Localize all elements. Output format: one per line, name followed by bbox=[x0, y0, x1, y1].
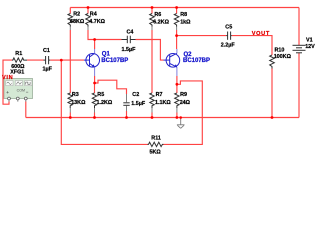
svg-text:+: + bbox=[6, 90, 9, 95]
svg-text:R1: R1 bbox=[15, 51, 22, 57]
junction rail R7 bbox=[151, 116, 154, 119]
capacitor C5 bbox=[221, 24, 236, 48]
svg-text:R11: R11 bbox=[151, 136, 161, 142]
svg-text:68KΩ: 68KΩ bbox=[70, 19, 85, 25]
svg-text:C5: C5 bbox=[225, 24, 232, 30]
svg-text:12V: 12V bbox=[305, 44, 315, 50]
svg-text:R10: R10 bbox=[275, 47, 285, 53]
svg-text:6.2KΩ: 6.2KΩ bbox=[153, 19, 169, 25]
wire R9 top lead bbox=[176, 84, 178, 93]
junction rail C2 bbox=[125, 116, 128, 119]
wire Q1 emitter jog to C2 bbox=[95, 80, 127, 94]
resistor R8 bbox=[174, 8, 191, 27]
svg-text:R7: R7 bbox=[156, 92, 163, 98]
svg-text:BC107BP: BC107BP bbox=[183, 58, 210, 64]
wire R6 bottom through cross to R7 top bbox=[151, 27, 153, 31]
wire Q2 emitter lead bbox=[176, 76, 178, 84]
wire base node to Q1 base bbox=[61, 59, 84, 61]
wire R2 bottom to base node bbox=[69, 27, 71, 31]
transistor Q1 bbox=[84, 49, 128, 76]
wire R8 bottom to Q2 collector node bbox=[176, 27, 178, 31]
resistor R7 bbox=[150, 92, 172, 108]
svg-text:Q2: Q2 bbox=[184, 52, 193, 58]
junction rail R3 bbox=[69, 116, 72, 119]
resistor R1 bbox=[11, 51, 27, 70]
wire R3 bottom to rail bbox=[69, 108, 71, 113]
junction rail ground bbox=[179, 116, 182, 119]
svg-text:V1: V1 bbox=[306, 38, 313, 44]
wire R11 right to Q2 emitter jog bbox=[164, 81, 203, 144]
wire R1 to C1 bbox=[27, 59, 44, 61]
svg-text:1.5µF: 1.5µF bbox=[131, 101, 146, 107]
wire XFG1 minus terminal drop bbox=[25, 102, 27, 118]
junction top rail R8 bbox=[175, 6, 178, 9]
wire collector node to C4 bbox=[95, 39, 122, 41]
svg-text:R2: R2 bbox=[73, 11, 80, 17]
capacitor C1 bbox=[43, 48, 53, 72]
svg-text:C4: C4 bbox=[127, 30, 134, 36]
svg-text:−: − bbox=[26, 90, 29, 95]
resistor R10 bbox=[270, 47, 292, 68]
junction Q2 collector node bbox=[175, 34, 178, 37]
junction top rail R6 bbox=[151, 6, 154, 9]
svg-text:C1: C1 bbox=[43, 48, 50, 54]
capacitor C4 bbox=[122, 30, 137, 53]
svg-text:5KΩ: 5KΩ bbox=[150, 150, 162, 156]
wire ground bottom rail bbox=[26, 117, 299, 119]
resistor R5 bbox=[92, 92, 113, 108]
resistor R3 bbox=[68, 92, 86, 108]
wire Q1 collector lead bbox=[94, 40, 96, 50]
wire VCC top rail bbox=[70, 7, 299, 9]
transistor Q2 bbox=[164, 49, 211, 76]
wire C1 to base node bbox=[50, 59, 61, 61]
junction Q1 base node bbox=[60, 59, 63, 62]
junction Q2 emitter node bbox=[176, 83, 179, 86]
resistor R9 bbox=[175, 92, 191, 108]
wire C2 bottom to rail bbox=[126, 106, 128, 111]
svg-text:100KΩ: 100KΩ bbox=[274, 54, 292, 60]
svg-text:Q1: Q1 bbox=[102, 51, 111, 57]
junction rail R9 bbox=[176, 116, 179, 119]
ground bbox=[177, 118, 185, 129]
junction Q1 emitter node bbox=[93, 82, 96, 85]
svg-text:R8: R8 bbox=[180, 12, 187, 18]
svg-text:1.2KΩ: 1.2KΩ bbox=[97, 100, 113, 106]
wire Q1 emitter lead bbox=[94, 76, 96, 83]
svg-text:VOUT: VOUT bbox=[252, 31, 270, 37]
svg-text:1.1KΩ: 1.1KΩ bbox=[155, 100, 171, 106]
svg-text:24Ω: 24Ω bbox=[180, 100, 191, 106]
svg-text:COM: COM bbox=[17, 88, 25, 92]
svg-text:2.2µF: 2.2µF bbox=[221, 43, 236, 49]
svg-text:13KΩ: 13KΩ bbox=[71, 100, 86, 106]
wire R5 top lead bbox=[94, 83, 96, 93]
wire feedback node down bbox=[61, 60, 147, 144]
svg-text:R9: R9 bbox=[180, 92, 187, 98]
wire R9 bottom to rail bbox=[176, 108, 178, 113]
wire R7 bottom to rail bbox=[151, 108, 153, 113]
svg-text:BC107BP: BC107BP bbox=[101, 58, 128, 64]
wire battery top lead bbox=[298, 8, 300, 46]
resistor R6 bbox=[150, 8, 170, 27]
capacitor C2 bbox=[123, 92, 146, 107]
svg-text:1kΩ: 1kΩ bbox=[180, 19, 191, 25]
junction rail R5 bbox=[93, 116, 96, 119]
svg-text:R3: R3 bbox=[72, 92, 79, 98]
resistor R11 bbox=[148, 136, 164, 156]
resistor R2 bbox=[68, 8, 85, 27]
resistor R4 bbox=[86, 8, 106, 27]
svg-text:R4: R4 bbox=[90, 12, 97, 18]
junction top rail R4 bbox=[87, 6, 90, 9]
svg-text:R5: R5 bbox=[97, 92, 104, 98]
junction Q1 collector node bbox=[93, 38, 96, 41]
svg-text:VIN: VIN bbox=[2, 75, 13, 81]
junction rail R10 bbox=[271, 116, 274, 119]
wire collector node to C5 bbox=[177, 35, 227, 37]
wire XFG1 plus to R1 left loop bbox=[3, 60, 12, 104]
svg-text:1µF: 1µF bbox=[43, 66, 53, 72]
svg-text:R6: R6 bbox=[154, 12, 161, 18]
wire C4 to Q2 base jog bbox=[136, 40, 164, 61]
wire R10 bottom to rail bbox=[271, 69, 273, 118]
wire Q2 collector lead bbox=[176, 36, 178, 49]
battery V1 bbox=[293, 38, 316, 53]
wire R5 bottom to rail bbox=[94, 108, 96, 113]
svg-text:C2: C2 bbox=[132, 92, 139, 98]
wire battery bottom lead bbox=[298, 53, 300, 118]
function generator XFG1 bbox=[4, 70, 33, 102]
wire R3 top to base wire bbox=[69, 60, 71, 93]
svg-text:4.7KΩ: 4.7KΩ bbox=[89, 19, 105, 25]
svg-text:1.5µF: 1.5µF bbox=[122, 47, 137, 53]
wire C5 to R10 / VOUT bbox=[232, 36, 272, 55]
wire R4 bottom to Q1 collector node bbox=[87, 27, 89, 31]
